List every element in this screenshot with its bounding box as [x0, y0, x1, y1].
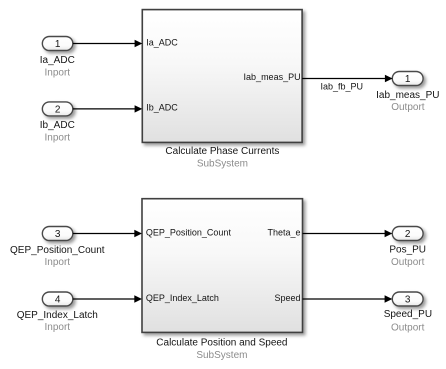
- svg-text:Calculate Position and Speed: Calculate Position and Speed: [156, 338, 287, 349]
- svg-text:QEP_Position_Count: QEP_Position_Count: [10, 245, 105, 256]
- svg-text:Pos_PU: Pos_PU: [389, 245, 426, 256]
- svg-text:Ib_ADC: Ib_ADC: [40, 120, 75, 131]
- svg-text:SubSystem: SubSystem: [196, 350, 247, 361]
- svg-text:Outport: Outport: [391, 257, 425, 268]
- svg-text:4: 4: [55, 295, 61, 306]
- svg-text:QEP_Index_Latch: QEP_Index_Latch: [146, 293, 219, 303]
- svg-text:Inport: Inport: [45, 322, 71, 333]
- svg-text:Outport: Outport: [391, 102, 425, 113]
- svg-text:1: 1: [405, 74, 411, 85]
- svg-text:SubSystem: SubSystem: [197, 158, 248, 169]
- svg-text:Inport: Inport: [45, 132, 71, 143]
- svg-text:3: 3: [405, 295, 411, 306]
- svg-text:Speed_PU: Speed_PU: [384, 309, 432, 320]
- svg-text:Calculate Phase Currents: Calculate Phase Currents: [165, 146, 279, 157]
- svg-text:Iab_meas_PU: Iab_meas_PU: [244, 72, 301, 82]
- svg-text:Inport: Inport: [45, 257, 71, 268]
- svg-text:Ib_ADC: Ib_ADC: [146, 103, 178, 113]
- svg-text:1: 1: [55, 39, 61, 50]
- svg-text:2: 2: [55, 105, 61, 116]
- svg-text:Iab_fb_PU: Iab_fb_PU: [321, 81, 364, 91]
- svg-text:QEP_Position_Count: QEP_Position_Count: [146, 227, 232, 237]
- svg-text:Speed: Speed: [274, 293, 300, 303]
- svg-text:Iab_meas_PU: Iab_meas_PU: [376, 90, 439, 101]
- svg-text:Outport: Outport: [391, 322, 425, 333]
- svg-text:2: 2: [405, 229, 411, 240]
- svg-text:Inport: Inport: [45, 67, 71, 78]
- svg-text:Ia_ADC: Ia_ADC: [146, 37, 178, 47]
- svg-text:3: 3: [55, 229, 61, 240]
- svg-text:QEP_Index_Latch: QEP_Index_Latch: [17, 310, 98, 321]
- svg-text:Theta_e: Theta_e: [267, 227, 300, 237]
- svg-text:Ia_ADC: Ia_ADC: [40, 55, 75, 66]
